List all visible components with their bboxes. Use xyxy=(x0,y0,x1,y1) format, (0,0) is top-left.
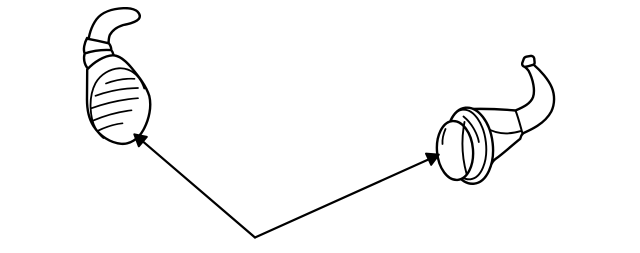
arrow to left part: shaft xyxy=(143,142,255,238)
left socket: collar ring 1 xyxy=(84,38,111,55)
right socket: flange disc xyxy=(443,105,497,186)
right socket: barrel seam line xyxy=(487,128,521,133)
right socket: wire end nub xyxy=(522,56,534,67)
left socket: rib line 5 xyxy=(98,123,123,131)
left socket: rib line 2 xyxy=(96,88,139,96)
right socket: front cap xyxy=(434,120,475,182)
right socket: cap edge crescent xyxy=(462,122,466,174)
left socket: rib line 3 xyxy=(91,98,138,108)
left socket: boot body outline xyxy=(87,55,150,144)
left socket: rib line 4 xyxy=(93,110,132,121)
right socket: crimp joint line xyxy=(516,111,523,135)
left socket: boot face inner edge xyxy=(91,68,145,138)
left socket: rib line 1 xyxy=(106,79,135,84)
left socket: collar ring 2 xyxy=(84,50,114,70)
arrow to left part: head xyxy=(134,134,147,146)
right socket: flange rim inner edge xyxy=(443,108,490,182)
arrow to right part: head xyxy=(426,154,439,165)
right socket: boot and wire silhouette xyxy=(472,65,554,164)
left socket: boot pigtail hook xyxy=(88,8,140,46)
right socket: flange face highlight arc xyxy=(464,117,479,143)
arrow to right part: shaft xyxy=(255,159,430,238)
right socket: cap highlight arc xyxy=(442,129,445,144)
